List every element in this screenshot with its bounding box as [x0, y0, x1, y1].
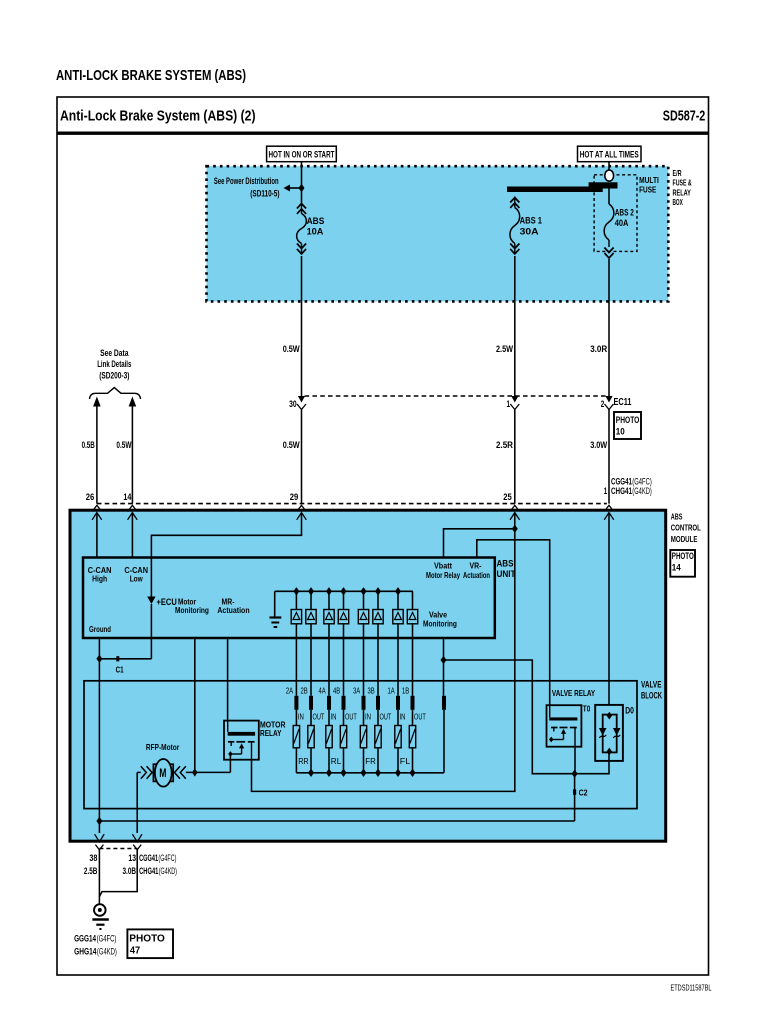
svg-text:T0: T0: [583, 704, 591, 714]
junction: valve return bus: [410, 769, 416, 777]
connector EC11 dashed line: [305, 395, 606, 397]
junction: unit bus node 3: [326, 587, 332, 595]
ground symbol (ABS unit internal): [270, 618, 282, 628]
svg-text:(SD200-3): (SD200-3): [99, 370, 129, 380]
connector pin 30: [297, 396, 306, 410]
svg-text:ABS: ABS: [307, 216, 325, 227]
valve driver 7: [393, 591, 403, 638]
solenoid valve 2A: [293, 710, 299, 773]
wire: motor right lead: [186, 771, 231, 773]
svg-text:OUT: OUT: [414, 712, 426, 721]
svg-text:RELAY: RELAY: [673, 187, 692, 197]
svg-text:CGG41: CGG41: [139, 853, 158, 863]
svg-text:(SD110-5): (SD110-5): [250, 189, 279, 199]
PHOTO 14 box: [670, 550, 695, 577]
svg-text:0.5W: 0.5W: [283, 440, 300, 450]
junction: unit bus node 4: [341, 587, 347, 595]
wire: valve relay output down: [574, 747, 576, 774]
valve driver 6: [373, 591, 383, 638]
svg-text:0.5B: 0.5B: [82, 440, 96, 450]
valve block pin (valve monitoring): [442, 696, 446, 710]
svg-text:38: 38: [89, 853, 97, 863]
wire: monitoring pin to valve return bus: [443, 710, 445, 773]
svg-text:ANTI-LOCK BRAKE SYSTEM (ABS): ANTI-LOCK BRAKE SYSTEM (ABS): [56, 67, 246, 84]
arrow up: C-CAN High to data link: [93, 397, 101, 407]
wire: driver 5 to valve pin 3A: [363, 638, 365, 696]
ABS control module (blue): [70, 510, 666, 841]
svg-text:Actuation: Actuation: [463, 570, 490, 580]
svg-text:14: 14: [123, 492, 131, 502]
wire: valve monitoring branch to C2: [444, 660, 575, 774]
valve driver 3: [324, 591, 334, 638]
valve block pin 4A: [327, 696, 331, 710]
wire: fuse ABS 10A output inside box: [301, 256, 303, 301]
svg-text:(G4KD): (G4KD): [159, 866, 177, 876]
pin 14 entry: [128, 505, 138, 520]
svg-text:CGG41: CGG41: [611, 477, 632, 487]
svg-text:HOT IN ON OR START: HOT IN ON OR START: [269, 150, 335, 161]
svg-text:Motor Relay: Motor Relay: [426, 570, 460, 580]
svg-text:Monitoring: Monitoring: [175, 605, 209, 615]
svg-text:Link Details: Link Details: [97, 359, 131, 369]
svg-text:25: 25: [503, 492, 512, 502]
svg-text:10: 10: [616, 427, 625, 437]
connector pin 2 (EC11): [605, 396, 614, 410]
valve driver 5: [358, 591, 368, 638]
wire: MR-Actuation to motor relay: [227, 638, 229, 721]
valve return bus: [296, 772, 444, 774]
valve block pin 1A: [396, 696, 400, 710]
arrow to See Power Distribution: [284, 185, 302, 192]
wire: unit Ground down: [98, 638, 100, 659]
svg-text:FUSE &: FUSE &: [673, 178, 692, 188]
wire: pin25 into module: [514, 513, 516, 529]
svg-text:CONTROL: CONTROL: [671, 523, 701, 533]
wire + inline connector C1: [99, 656, 151, 661]
junction: unit bus node 5: [361, 587, 367, 595]
svg-text:30A: 30A: [520, 227, 539, 238]
valve block pin 2B: [309, 696, 313, 710]
valve driver 4: [338, 591, 348, 638]
pin 25 entry: [510, 505, 520, 520]
wire: motor left lead: [137, 771, 141, 773]
valve block pin 2A: [294, 696, 298, 710]
wire 3.0R: fuse box to EC11: [608, 301, 610, 396]
junction: ground node C1: [96, 655, 102, 663]
svg-text:FR: FR: [365, 756, 376, 766]
svg-text:10A: 10A: [307, 226, 324, 237]
solenoid valve 3B: [375, 710, 381, 773]
svg-text:3B: 3B: [368, 686, 375, 695]
wire: bus bar to ABS2 fuse: [608, 189, 610, 205]
svg-text:(G4KD): (G4KD): [97, 946, 117, 956]
solenoid valve 4A: [326, 710, 332, 773]
solenoid valve 3A: [360, 710, 366, 773]
PHOTO 10 box: [614, 412, 641, 439]
svg-text:OUT: OUT: [345, 712, 357, 721]
connector pin 1 (EC11): [510, 396, 519, 410]
svg-text:OUT: OUT: [313, 712, 325, 721]
svg-text:14: 14: [672, 563, 681, 573]
outer frame: [57, 97, 709, 975]
diode box D0: [595, 705, 623, 761]
junction: valve return bus: [308, 769, 314, 777]
svg-text:RL: RL: [331, 756, 342, 766]
valve driver 1: [291, 591, 301, 638]
svg-text:3.0W: 3.0W: [590, 440, 607, 450]
svg-text:FL: FL: [400, 756, 411, 766]
junction: unit bus node 2: [308, 587, 314, 595]
VALVE BLOCK box: [84, 681, 637, 809]
svg-text:47: 47: [130, 945, 140, 957]
ground bus (module bottom): [99, 820, 574, 822]
svg-text:2.5B: 2.5B: [84, 866, 98, 876]
fuse ABS 1 30A: [510, 197, 520, 255]
solenoid valve 1A: [395, 710, 401, 773]
valve block pin 4B: [342, 696, 346, 710]
svg-text:(G4FC): (G4FC): [97, 934, 117, 944]
svg-text:ABS 1: ABS 1: [520, 216, 543, 227]
wire 0.5B: C-CAN High: [96, 405, 98, 504]
fuse ABS 10A: [297, 203, 307, 255]
terminal circle (battery terminal): [605, 170, 614, 181]
svg-text:1B: 1B: [402, 686, 409, 695]
svg-text:0.5W: 0.5W: [116, 440, 131, 450]
junction: motor relay movable contact: [228, 751, 232, 757]
wire: ground node down to ground bus: [98, 659, 100, 821]
svg-text:FUSE: FUSE: [639, 185, 656, 195]
svg-text:GHG14: GHG14: [74, 946, 96, 956]
svg-text:26: 26: [86, 492, 95, 502]
wire: driver 7 to valve pin 1A: [397, 638, 399, 696]
svg-text:BOX: BOX: [673, 197, 683, 207]
wire: pin 29 to +ECU: [151, 513, 301, 597]
junction: D0 top: [607, 712, 613, 720]
svg-text:30: 30: [289, 399, 297, 409]
svg-text:PHOTO: PHOTO: [672, 551, 694, 561]
wire: pin 13 to chassis ground: [99, 850, 137, 897]
wire 3.0W: EC11 to module pin 1: [608, 410, 610, 504]
wire: pin14 to C-CAN Low: [131, 513, 133, 558]
svg-text:High: High: [92, 574, 107, 584]
wire 0.5W: EC11 to module pin 29: [301, 410, 303, 504]
wire 0.5W: fuse box to EC11: [301, 301, 303, 396]
svg-text:BLOCK: BLOCK: [641, 690, 662, 700]
svg-text:CHG41: CHG41: [139, 866, 158, 876]
junction: valve return bus: [341, 769, 347, 777]
junction: D0 bottom: [607, 748, 613, 756]
junction: motor monitoring tap: [192, 768, 197, 776]
svg-text:IN: IN: [331, 712, 337, 721]
svg-text:2A: 2A: [286, 686, 294, 695]
junction: C2 node: [572, 770, 578, 778]
wire: junction to Vbatt: [444, 529, 515, 558]
wire: driver 8 to valve pin 1B: [412, 638, 414, 696]
svg-text:Ground: Ground: [89, 624, 111, 634]
svg-text:VALVE: VALVE: [641, 679, 662, 689]
svg-text:VALVE RELAY: VALVE RELAY: [552, 688, 596, 698]
junction: valve monitoring node: [441, 656, 447, 664]
MULTI FUSE box: [594, 175, 637, 252]
svg-text:IN: IN: [298, 712, 304, 721]
ABS UNIT box: [83, 558, 495, 639]
wire: driver 1 to valve pin 2A: [295, 638, 297, 696]
wire: pin26 to C-CAN High: [96, 513, 98, 558]
svg-text:2B: 2B: [301, 686, 308, 695]
svg-text:(G4KD): (G4KD): [632, 486, 652, 496]
pin 29 entry: [297, 505, 307, 520]
wire: HOT IN ON OR START feed: [301, 162, 303, 203]
solenoid valve 1B: [409, 710, 415, 773]
wire: Vbatt power to motor relay switch: [252, 529, 515, 792]
PHOTO 47 box: [127, 929, 173, 958]
svg-text:See Data: See Data: [100, 348, 129, 358]
svg-text:MODULE: MODULE: [671, 534, 698, 544]
wire: pin1/VR-actuation: [477, 540, 550, 705]
svg-text:1A: 1A: [388, 686, 396, 695]
brace: see data link details: [90, 388, 141, 399]
valve block pin 1B: [411, 696, 415, 710]
wire: pin 1 down to diode D0: [608, 513, 610, 705]
svg-text:1: 1: [604, 486, 608, 496]
svg-text:(G4FC): (G4FC): [158, 853, 176, 863]
svg-text:IN: IN: [365, 712, 371, 721]
svg-text:GGG14: GGG14: [74, 934, 96, 944]
solenoid valve 2B: [308, 710, 314, 773]
unit internal bus: [275, 590, 413, 592]
module top connector dashed line: [97, 503, 607, 505]
svg-text:29: 29: [290, 492, 299, 502]
wire: fuse ABS1 output inside box: [514, 256, 516, 301]
svg-text:+ECU: +ECU: [157, 597, 177, 607]
wire: driver 6 to valve pin 3B: [377, 638, 379, 696]
svg-text:PHOTO: PHOTO: [616, 415, 640, 425]
wire: ABS2 fuse output inside box: [608, 259, 610, 301]
VALVE RELAY box: [547, 705, 582, 747]
svg-text:M: M: [159, 768, 166, 780]
svg-text:4A: 4A: [319, 686, 327, 695]
valve relay internals: [549, 705, 577, 747]
svg-text:13: 13: [128, 853, 136, 863]
svg-text:CHG41: CHG41: [611, 486, 632, 496]
svg-text:3A: 3A: [353, 686, 361, 695]
svg-text:OUT: OUT: [380, 712, 392, 721]
wire: pin 38 to chassis ground: [98, 850, 100, 904]
arrow up: C-CAN Low to data link: [129, 397, 137, 407]
junction: unit bus node 1: [293, 587, 299, 595]
svg-text:ETDSD11587BL: ETDSD11587BL: [671, 983, 712, 993]
wire + inline connector C2: [573, 774, 576, 821]
wire 2.5R: EC11 to module pin 25: [514, 410, 516, 504]
svg-text:Monitoring: Monitoring: [423, 619, 457, 629]
label box HOT IN ON OR START: [267, 146, 337, 162]
wire: driver 3 to valve pin 4A: [328, 638, 330, 696]
diode +ECU: [147, 597, 155, 605]
junction: valve return bus: [395, 769, 401, 777]
svg-text:2: 2: [601, 399, 605, 409]
junction: unit bus node 6: [375, 587, 381, 595]
wire 0.5W: C-CAN Low: [131, 405, 133, 504]
junction: valve return bus: [361, 769, 367, 777]
pin 26 entry: [92, 505, 102, 520]
pin 13 exit: [132, 834, 142, 850]
junction: ground bus left: [96, 817, 102, 825]
junction: feed / power distribution tap: [299, 184, 305, 192]
wire: motor lead up to relay contact: [229, 755, 231, 772]
svg-text:(G4FC): (G4FC): [632, 477, 652, 487]
svg-text:IN: IN: [400, 712, 406, 721]
svg-text:40A: 40A: [615, 218, 629, 229]
junction: unit bus node 7: [395, 587, 401, 595]
svg-text:C2: C2: [579, 788, 588, 798]
svg-text:3.0B: 3.0B: [123, 866, 137, 876]
pin 38 exit: [95, 834, 105, 850]
wire: ground bus to pin 38: [98, 821, 100, 833]
junction: valve relay movable contact: [549, 737, 553, 743]
bus bar (lower): [507, 187, 603, 193]
svg-text:RR: RR: [298, 756, 309, 766]
chassis ground symbol: [92, 904, 108, 929]
wire: driver 2 to valve pin 2B: [310, 638, 312, 696]
motor relay internals: [228, 721, 255, 760]
svg-text:D0: D0: [625, 706, 634, 716]
svg-text:UNIT: UNIT: [497, 569, 516, 579]
svg-text:Anti-Lock Brake System (ABS) (: Anti-Lock Brake System (ABS) (2): [60, 108, 256, 124]
solenoid valve 4B: [340, 710, 346, 773]
svg-text:3.0R: 3.0R: [590, 344, 607, 354]
junction: valve return bus: [375, 769, 381, 777]
header separator: [57, 131, 709, 134]
wire: motor to pin 13: [136, 772, 138, 833]
valve block pin 3A: [362, 696, 366, 710]
svg-text:C1: C1: [116, 665, 124, 675]
motor RFP (M): [141, 759, 186, 787]
junction: valve return bus: [326, 769, 332, 777]
valve driver 8: [407, 591, 417, 638]
svg-text:2.5R: 2.5R: [496, 440, 513, 450]
svg-text:See Power Distribution: See Power Distribution: [214, 176, 279, 186]
svg-text:SD587-2: SD587-2: [663, 108, 706, 124]
wire: driver 4 to valve pin 4B: [343, 638, 345, 696]
pin 1 entry: [604, 505, 614, 520]
junction: pin25 Vbatt: [512, 525, 518, 533]
valve driver 2: [306, 591, 316, 638]
MOTOR RELAY box: [224, 721, 259, 760]
diode pair D0: [599, 715, 621, 753]
svg-text:1: 1: [507, 399, 511, 409]
svg-text:Low: Low: [130, 574, 143, 584]
svg-text:EC11: EC11: [614, 397, 632, 408]
svg-text:2.5W: 2.5W: [496, 344, 513, 354]
svg-text:RFP-Motor: RFP-Motor: [146, 742, 180, 752]
svg-text:0.5W: 0.5W: [283, 344, 300, 354]
svg-text:PHOTO: PHOTO: [129, 933, 165, 945]
wire 2.5W: fuse box to EC11: [514, 301, 516, 396]
wire: bus to unit ground: [274, 591, 276, 616]
svg-text:4B: 4B: [333, 686, 340, 695]
wire: D0 output: [575, 752, 609, 773]
fuse ABS 2 40A: [604, 204, 614, 258]
svg-text:ABS: ABS: [671, 512, 683, 522]
svg-text:RELAY: RELAY: [260, 728, 282, 738]
wire: Motor Monitoring to motor node: [194, 638, 196, 772]
svg-text:Actuation: Actuation: [217, 605, 249, 615]
wire: HOT AT ALL TIMES feed: [608, 162, 610, 170]
valve block pin 3B: [376, 696, 380, 710]
svg-text:ABS: ABS: [497, 559, 514, 569]
wire: +ECU down to C1 node: [150, 604, 152, 659]
wire: Valve Monitoring down to valve block: [443, 638, 445, 696]
bus bar (upper, to terminal): [589, 182, 618, 188]
label box HOT AT ALL TIMES: [578, 146, 642, 162]
bottom connector dashed line: [99, 848, 137, 850]
svg-text:HOT AT ALL TIMES: HOT AT ALL TIMES: [580, 150, 639, 161]
E/R fuse and relay box (blue): [207, 166, 669, 301]
